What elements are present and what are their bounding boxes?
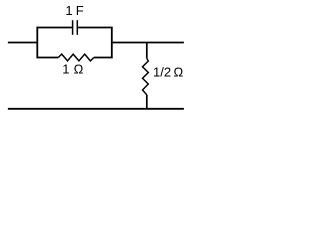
svg-text:1 F: 1 F	[65, 3, 83, 18]
wire: left input lead	[8, 42, 37, 44]
wire: top branch right of capacitor	[77, 27, 112, 29]
wire: top branch left of capacitor	[37, 27, 73, 29]
wire: output top wire	[112, 42, 184, 44]
wire: bottom wire	[8, 108, 184, 110]
wire: bottom branch left lead	[37, 57, 59, 59]
wire: vertical lead from R2 down to bottom wire	[146, 95, 148, 109]
capacitor C1 (1 F) plate left	[72, 20, 74, 35]
resistor R2 (1/2 ohm) vertical zigzag	[143, 58, 149, 95]
capacitor C1 (1 F) plate right	[76, 20, 78, 35]
svg-text:1/2 Ω: 1/2 Ω	[153, 64, 183, 79]
wire: vertical lead from top wire down to R2	[146, 43, 148, 59]
node: right edge of parallel block	[111, 27, 113, 58]
svg-text:1 Ω: 1 Ω	[62, 62, 83, 77]
resistor R1 (1 ohm) zigzag	[58, 54, 94, 61]
wire: bottom branch right lead	[94, 57, 113, 59]
node: left edge of parallel block	[36, 27, 38, 58]
